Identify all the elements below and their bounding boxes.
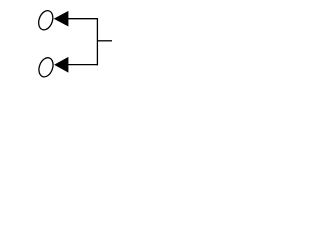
arrowhead A1 (top, filled, pointing left)	[54, 11, 69, 27]
node bubble O2 (bottom, tilted oval)	[36, 56, 55, 79]
wire (top horizontal, arrowhead to corner)	[68, 18, 97, 20]
wire (bottom horizontal, arrowhead to corner)	[68, 64, 97, 66]
arrowhead A2 (bottom, filled, pointing left)	[54, 57, 68, 73]
wire (middle stub to the right)	[97, 40, 112, 42]
node bubble O1 (top, tilted oval)	[36, 9, 55, 32]
wire (vertical bus on right)	[96, 18, 98, 65]
